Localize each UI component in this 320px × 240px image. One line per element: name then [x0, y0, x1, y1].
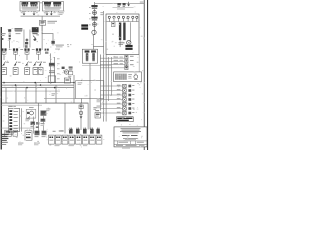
lamp L7: [136, 16, 138, 21]
plug pin PP4: [0, 149, 1, 151]
wire bus N6: [0, 149, 1, 151]
label S8 tag: [37, 61, 40, 64]
plug pin PP3: [0, 149, 1, 151]
label rung2: [0, 149, 1, 151]
title text p3: [0, 149, 1, 151]
wire rung row2: [100, 89, 122, 92]
label row left: [0, 149, 1, 151]
arrow A4: [127, 2, 130, 7]
inline fuse FL1: [8, 29, 11, 39]
plug pin PP4: [90, 128, 94, 134]
sensor B3: [91, 17, 97, 21]
sensor B4: [0, 149, 1, 151]
wire ladder rung RG3: [0, 149, 1, 151]
wire riser V8: [110, 57, 113, 96]
wire drop D1: [0, 149, 1, 151]
label M1: [0, 149, 1, 151]
wire F2 down: [14, 54, 17, 60]
wire drop D6: [55, 85, 58, 103]
plus mark pair A: [26, 39, 29, 42]
wire drop D5: [0, 149, 1, 151]
sensor B2: [93, 11, 97, 15]
label bottom note 3: [34, 143, 40, 146]
wire drop D9: [0, 149, 1, 151]
wire ladder rung RG3b: [100, 67, 124, 70]
connector arrow P4: [50, 11, 56, 15]
wire riser V3: [0, 149, 1, 151]
capacitor C2: [0, 149, 1, 151]
dispenser box U1: [20, 2, 40, 12]
bottom dash row: [55, 144, 88, 147]
lamp L7: [0, 149, 1, 151]
sensor B4: [93, 22, 97, 26]
wire S8 to bus: [0, 149, 1, 151]
main harness box A5: [106, 14, 139, 55]
wire top right bus: [0, 149, 1, 151]
winding W2: [0, 149, 1, 151]
wire drop to C1: [41, 16, 44, 20]
lamp L1: [108, 16, 110, 21]
fan motor M2: [26, 107, 36, 119]
relay K3: [44, 2, 51, 7]
tick V4: [0, 149, 1, 151]
wire T1 down: [119, 40, 122, 47]
title text p1: [0, 149, 1, 151]
motor M7: [134, 75, 138, 80]
door switch S11: [125, 55, 134, 58]
label bottom note 1: [0, 149, 1, 151]
wire R1 right down: [29, 30, 32, 48]
switch S8: [33, 62, 38, 75]
relay X2: [117, 89, 135, 93]
relay X3: [117, 93, 135, 97]
relay K1: [21, 2, 28, 7]
wire ladder rung RG1: [100, 57, 124, 60]
connector J1: [79, 105, 83, 109]
wire riser V6: [0, 149, 1, 151]
wire drop D4: [0, 149, 1, 151]
wire ladder rung RG3b: [0, 149, 1, 151]
title text p3: [123, 138, 138, 140]
label mid low: [0, 149, 1, 151]
title footer cells row 2: [0, 149, 1, 151]
defrost heater box A2: [0, 149, 1, 151]
plug pin PP2: [76, 128, 80, 134]
wire A3 rung: [0, 149, 1, 151]
lamp L3: [0, 149, 1, 151]
wire bus N6: [1, 104, 42, 107]
sensor B2: [0, 149, 1, 151]
door switch S12: [0, 149, 1, 151]
inline fuse F7: [0, 149, 1, 151]
title text p1: [120, 128, 141, 133]
label rung1: [0, 149, 1, 151]
wire riser V5: [99, 55, 102, 111]
corner tag: [140, 2, 144, 4]
motor M3: [0, 149, 1, 151]
title block box: [0, 149, 1, 151]
wire to timer box: [93, 45, 103, 48]
terminal strip TS6: [83, 135, 89, 144]
wire vertical V1: [0, 149, 1, 151]
label S7 tag: [29, 61, 32, 64]
tick labels beside V2: [57, 58, 60, 79]
sensor B3: [0, 149, 1, 151]
label below A2: [0, 149, 1, 151]
valve cluster VC1: [31, 122, 40, 129]
sensor B1: [0, 149, 1, 151]
wire riser V8: [0, 149, 1, 151]
label row left: [53, 130, 64, 131]
valve cluster VC2: [0, 149, 1, 151]
wire inside A5: [129, 22, 132, 42]
wire drop D5: [45, 88, 48, 103]
wire FL1 down: [8, 39, 11, 48]
lamp L4: [0, 149, 1, 151]
label S9 tag: [43, 61, 46, 64]
label rung rows left: [0, 149, 1, 151]
resistor R2: [49, 70, 54, 73]
fuse F2: [13, 48, 18, 54]
wire rung RG5: [0, 149, 1, 151]
wire rung RG6: [0, 149, 1, 151]
sensor cluster SB2: [35, 131, 40, 137]
label A6: [0, 149, 1, 151]
relay X7: [117, 111, 135, 115]
wire S6 to bus: [0, 149, 1, 151]
top right ground lug G3: [123, 3, 126, 7]
wire bus N4: [2, 90, 60, 93]
wire S7 to bus: [0, 149, 1, 151]
wire A3 bottom: [89, 63, 92, 129]
label 24: [0, 149, 1, 151]
motor M4: [92, 30, 96, 34]
wire M3 down: [0, 149, 1, 151]
wire M1 down: [73, 75, 76, 103]
sensor cluster SB2: [0, 149, 1, 151]
wire bus N2: [0, 149, 1, 151]
label tick row: [0, 149, 1, 151]
label top right: [0, 149, 1, 151]
main harness box A5: [0, 149, 1, 151]
wire ladder rung RG2: [0, 149, 1, 151]
scan noise speckle: [0, 149, 1, 151]
pin ticks box U2: [46, 11, 60, 12]
relay X1: [117, 84, 135, 88]
wire vertical V2: [0, 149, 1, 151]
label text row box U2: [44, 7, 61, 9]
wire K6 down: [0, 149, 1, 151]
wire A3 bottom: [0, 149, 1, 151]
valve cluster VC1: [0, 149, 1, 151]
spare fuse marks: [45, 49, 49, 54]
wire ladder rung RG2: [100, 60, 124, 63]
wire drop D6: [0, 149, 1, 151]
wire A2 right: [0, 149, 1, 151]
plug pin PP5: [0, 149, 1, 151]
terminal strip TS1: [49, 135, 55, 144]
fuse tag t1: [9, 48, 12, 51]
wire bottom rail: [1, 127, 35, 130]
terminal strip TS4: [0, 149, 1, 151]
label BLACK BOX: [81, 24, 88, 29]
label below A2: [9, 132, 15, 134]
label S6 tag: [18, 61, 21, 64]
fan motor M5: [119, 40, 132, 45]
plug pin PP1: [0, 149, 1, 151]
title footer divider 1: [114, 140, 147, 142]
label top right: [113, 6, 134, 9]
defrost timer box A3: [82, 49, 97, 63]
connector arrow P3: [44, 11, 49, 15]
door switch S13: [0, 149, 1, 151]
label above A2: [0, 149, 1, 151]
winding W1: [0, 149, 1, 151]
wire riser V5: [0, 149, 1, 151]
tick V4: [100, 12, 103, 15]
sensor cluster SB3: [0, 149, 1, 151]
title footer cells row 2: [116, 144, 145, 147]
wire drop D4: [35, 83, 38, 103]
compressor motor M1: [0, 149, 1, 151]
switch S9: [38, 62, 43, 75]
lamp L2: [0, 149, 1, 151]
page number: [0, 149, 1, 151]
junction dots: [0, 149, 1, 151]
wire stub row: [44, 97, 76, 100]
connector arrow P1: [21, 11, 26, 15]
wire drop D8: [64, 103, 67, 133]
top right ground lug G2: [117, 3, 120, 7]
wire between boxes: [40, 2, 43, 5]
thermostat S10: [40, 110, 46, 115]
lamp L6: [0, 149, 1, 151]
wire S10 down: [0, 149, 1, 151]
terminal strip TS4: [69, 135, 75, 144]
relay X5: [117, 102, 135, 106]
label text row box U1: [22, 7, 38, 9]
plug pin PP3: [83, 128, 87, 134]
overload OL1: [0, 149, 1, 151]
transformer T1: [119, 23, 121, 41]
wire rung row3: [100, 94, 122, 97]
transformer T2: [0, 149, 1, 151]
sensor B1: [91, 5, 97, 9]
compressor motor M1: [62, 67, 69, 75]
wire rung row6: [100, 107, 122, 110]
label bottom note 2: [18, 143, 23, 146]
wire riser V4: [102, 11, 105, 122]
relay KB2: [13, 130, 18, 136]
wire A5 right edge down: [0, 149, 1, 151]
wire stub row: [0, 149, 1, 151]
bottom dash row: [0, 149, 1, 151]
tick marks column: [0, 149, 1, 151]
wire top bus: [21, 15, 61, 18]
fuse F4: [36, 48, 41, 54]
motor M4: [0, 149, 1, 151]
wire A5 header line: [0, 149, 1, 151]
overload OL1: [49, 63, 55, 67]
winding W1: [85, 50, 90, 61]
wire F4 down: [37, 54, 40, 60]
connector strip ribs: [0, 149, 1, 151]
label M2: [25, 119, 30, 122]
dispenser box U2: [43, 2, 64, 12]
switch S5: [2, 62, 7, 75]
valve cluster VC2: [41, 119, 46, 126]
wire bus N3: [0, 149, 1, 151]
wire rung RG4: [0, 149, 1, 151]
wire rung row5: [100, 103, 122, 106]
door switch S14: [125, 66, 128, 69]
wire M2 down: [32, 117, 35, 134]
wire T1 down: [0, 149, 1, 151]
terminal strip TS7: [89, 135, 95, 144]
defrost timer box A3: [0, 149, 1, 151]
door switch S13: [125, 64, 134, 67]
pin ticks box U1: [23, 11, 37, 12]
relay K4: [53, 2, 61, 7]
terminal strip TS2: [55, 135, 61, 144]
label bottom note 1: [1, 134, 8, 145]
wire A2 right: [20, 108, 23, 131]
wire rung row7: [100, 112, 122, 115]
label under box U2: [58, 12, 63, 14]
wire bus N4: [0, 149, 1, 151]
wire drop D3: [0, 149, 1, 151]
wire M4 down: [0, 149, 1, 151]
relay K2: [30, 2, 37, 7]
label mid low: [46, 109, 50, 112]
relay X6: [117, 107, 135, 111]
label timer dark: [125, 45, 132, 50]
wire S10 down: [42, 116, 45, 134]
terminal strip TS8: [96, 135, 102, 144]
capacitor C1: [39, 20, 45, 25]
fuse tag t2: [20, 48, 23, 51]
wire drop D8: [0, 149, 1, 151]
connector strip ribs: [115, 74, 126, 80]
fan motor M5: [0, 149, 1, 151]
wire K6 down: [80, 80, 83, 103]
connector arrow P2: [33, 11, 38, 15]
relay KB2: [0, 149, 1, 151]
switch S7: [25, 62, 30, 75]
connector CN1: [25, 42, 28, 48]
terminal strip TS2: [0, 149, 1, 151]
wire to timer box: [0, 149, 1, 151]
label M2: [0, 149, 1, 151]
lamp L5: [127, 16, 129, 21]
wire drop D1: [5, 88, 8, 103]
label inside B2: [0, 149, 1, 151]
wire ladder rung RG3: [100, 64, 124, 67]
plug pin PP5: [96, 128, 99, 134]
fuse F1: [1, 48, 6, 54]
wire M4 down: [92, 35, 95, 50]
wire C1 elbow: [42, 25, 54, 41]
diode D10: [51, 41, 54, 46]
capacitor C2: [64, 78, 70, 83]
label BLACK BOX: [0, 149, 1, 151]
wire bus N3: [1, 86, 74, 89]
wire S9 to bus: [0, 149, 1, 151]
label rung rows left: [97, 100, 102, 109]
title text p2: [0, 149, 1, 151]
relay KB1: [5, 130, 11, 136]
plug pin PP1: [69, 128, 73, 134]
connector J2: [0, 149, 1, 151]
wire bus N1: [1, 81, 74, 84]
switch box SB1: [25, 131, 32, 140]
door switch S11: [0, 149, 1, 151]
terminal strip TS5: [0, 149, 1, 151]
label 24: [93, 107, 96, 110]
junction box B2: [76, 81, 104, 99]
label S5 tag: [6, 61, 9, 64]
wire riser V7: [107, 57, 110, 101]
junction box B2: [0, 149, 1, 151]
wire vertical V1: [49, 53, 52, 82]
fuse tag t3: [32, 48, 35, 51]
wire ladder rung RG1: [0, 149, 1, 151]
tick marks column: [89, 7, 91, 25]
fan motor M2: [0, 149, 1, 151]
wire A5 right edge down: [138, 55, 141, 72]
inline fuse F7: [95, 110, 101, 118]
door switch S12: [125, 60, 134, 63]
wire F1 down: [3, 54, 6, 60]
label LB1: [1, 33, 6, 40]
wire drop D2: [15, 85, 18, 103]
lamp L4: [122, 16, 124, 21]
lamp L1: [0, 149, 1, 151]
motor M7: [0, 149, 1, 151]
winding W2: [91, 50, 96, 61]
switch S6: [13, 62, 18, 75]
relay X4: [117, 98, 135, 102]
label timer dark: [0, 149, 1, 151]
tick labels beside V2: [0, 149, 1, 151]
door switch S14: [0, 149, 1, 151]
wire drop D3: [25, 88, 28, 103]
lamp L2: [113, 16, 115, 21]
connector J1: [0, 149, 1, 151]
wire long bus N5: [1, 102, 88, 105]
wire riser V7: [0, 149, 1, 151]
arrow A4: [0, 149, 1, 151]
wire A5 header line: [107, 20, 139, 23]
top right ground lug G2: [0, 149, 1, 151]
thermostat S10: [0, 149, 1, 151]
valve arrow: [0, 149, 1, 151]
heater ribbon R1: [15, 28, 23, 34]
wire bus N1: [0, 149, 1, 151]
label M1: [68, 76, 71, 78]
label bottom note 3: [0, 149, 1, 151]
corner tag: [0, 149, 1, 151]
label rung2: [114, 59, 123, 62]
label A6: [128, 74, 132, 78]
top right ground lug G3: [0, 149, 1, 151]
start relay K6: [0, 149, 1, 151]
wire drop D7: [37, 103, 40, 133]
terminal strip TS5: [76, 135, 82, 144]
title text p2: [122, 135, 138, 136]
title footer divider 1: [0, 149, 1, 151]
title block box: [114, 127, 147, 147]
